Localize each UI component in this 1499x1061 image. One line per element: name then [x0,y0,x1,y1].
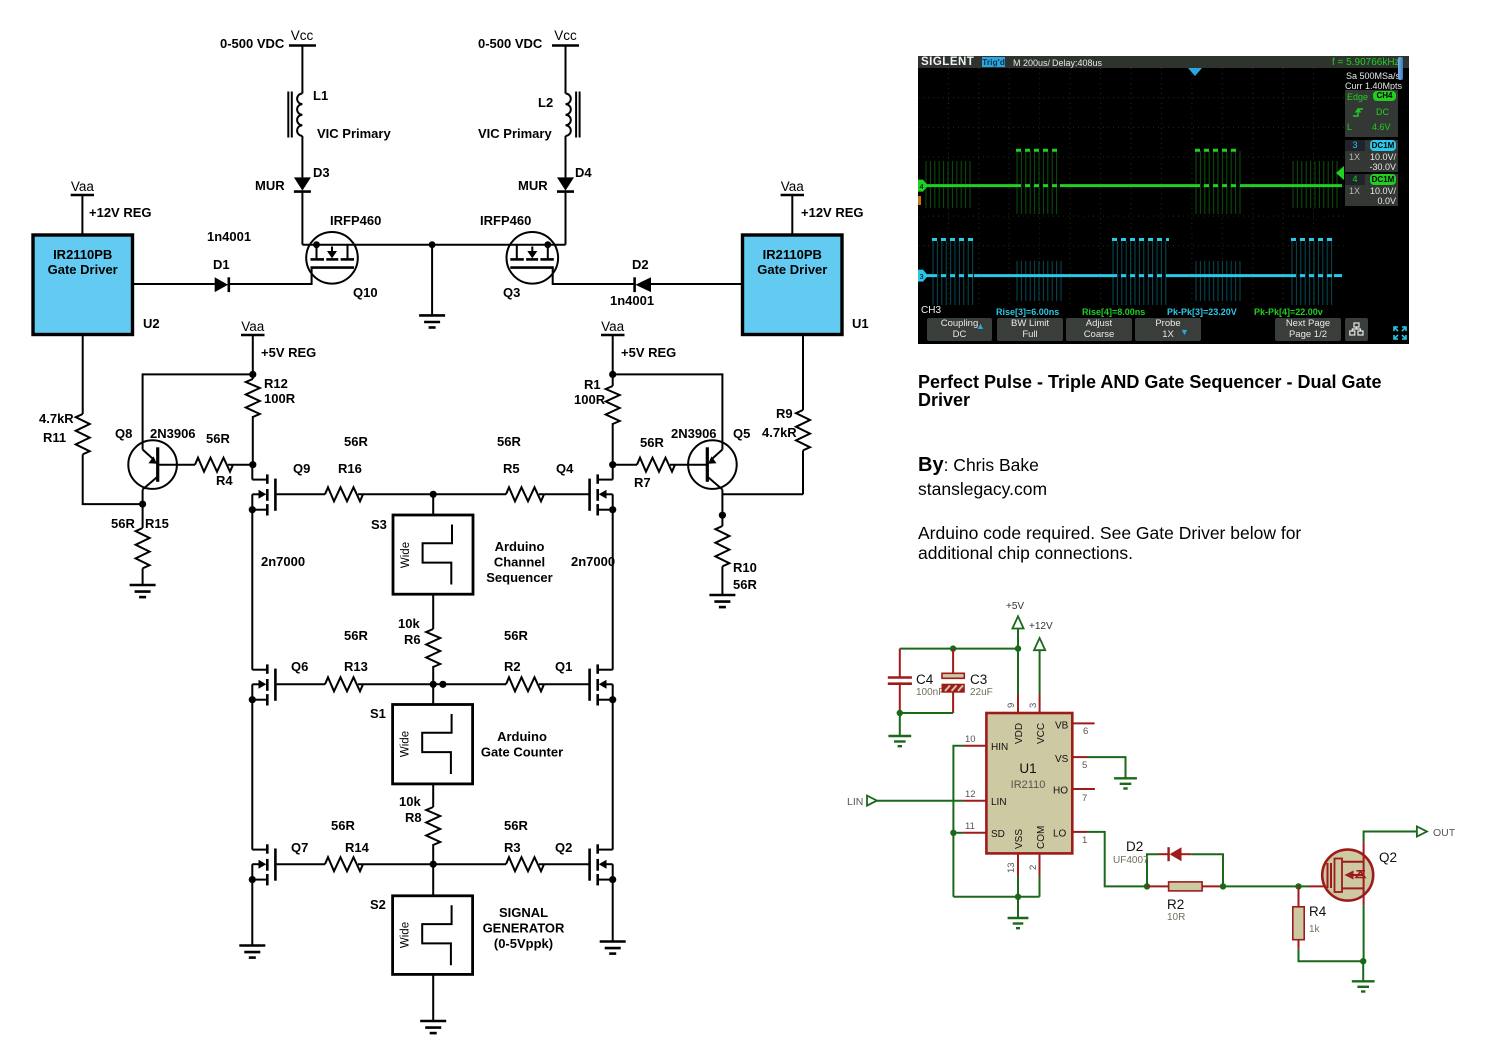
wire node to R15 [142,504,144,528]
node row2 center (double junction) [430,681,437,688]
svg-text:L2: L2 [538,95,553,110]
ground (below S2) [420,1021,446,1033]
transistor Q9 2n7000 [249,461,311,516]
wire center node to ground [431,245,433,316]
ground (below C4) [888,713,911,746]
wire L2 to D4 [565,136,567,178]
wire Q2 drain to OUT [1364,832,1417,862]
IC U1 IR2110PB gate driver [743,235,869,335]
svg-text:SD: SD [991,829,1005,840]
inductor L1 [288,88,391,141]
svg-text:4.7kR: 4.7kR [762,425,797,440]
svg-text:D4: D4 [575,165,592,180]
svg-text:R3: R3 [504,840,521,855]
svg-text:R2: R2 [1167,897,1184,912]
wire Q9 source to Q6 drain [251,510,253,670]
ground (below R15) [130,585,156,597]
svg-text:IR2110PB: IR2110PB [53,247,112,262]
wire Vaa down to R12 [252,335,254,379]
svg-text:Arduino: Arduino [495,539,545,554]
svg-text:11: 11 [965,821,975,832]
wire Q4 source to Q1 drain [612,510,614,670]
svg-text:(0-5Vppk): (0-5Vppk) [494,936,553,951]
svg-text:Q2: Q2 [555,840,572,855]
ground (center between Q10 and Q3) [419,315,445,327]
green trace CH4 [920,150,1342,185]
wire R8 to row3 node [432,844,434,864]
wire R6 to row2 node [432,666,434,684]
svg-text:1: 1 [1082,835,1087,846]
svg-text:IRFP460: IRFP460 [330,213,381,228]
wire Vaa to U1 [791,195,793,235]
svg-text:Q10: Q10 [353,285,378,300]
svg-text:U2: U2 [143,316,160,331]
svg-text:R8: R8 [405,810,422,825]
svg-text:Q1: Q1 [555,659,572,674]
svg-text:Q7: Q7 [291,840,308,855]
transistor Q2 (power MOSFET) [1322,850,1397,901]
pin numbers [965,703,1088,873]
scope graticule and traces [918,68,1344,305]
wire +5V rail to C4 [900,648,1018,650]
svg-text:LIN: LIN [991,797,1007,808]
wire Q1 source to Q2 drain [612,700,614,850]
svg-text:Wide: Wide [400,922,412,948]
svg-text:56R: 56R [206,431,230,446]
input port LIN [847,796,963,808]
svg-text:56R: 56R [331,818,355,833]
inductor L2 [478,92,580,142]
diode D2 UF4007 [1113,839,1223,886]
wire bottom tie to VSS/COM [953,896,1039,898]
svg-text:LO: LO [1053,829,1067,840]
svg-text:R14: R14 [345,840,370,855]
signal source S3 (Arduino Channel Sequencer) [371,515,473,594]
svg-text:Q3: Q3 [503,285,520,300]
transistor Q7 2n7000 [249,840,309,885]
wire SD tie [953,832,963,834]
svg-text:R6: R6 [404,632,421,647]
svg-text:R13: R13 [344,659,368,674]
svg-text:S2: S2 [370,897,386,912]
wire U2 to R11 [82,335,84,415]
capacitor C3 22uF [942,649,993,713]
trigger level arrow [1336,166,1344,180]
svg-text:0-500 VDC: 0-500 VDC [478,36,543,51]
wire S2 to ground [432,974,434,1021]
svg-text:U1: U1 [1019,761,1036,776]
IC U1 IR2110 [986,713,1072,853]
wire Q2 source to ground [1360,888,1366,964]
svg-text:VIC Primary: VIC Primary [317,126,391,141]
svg-text:Vaa: Vaa [241,319,265,334]
svg-text:3: 3 [1028,703,1039,708]
scope header bar [918,56,1409,68]
wire VS to ground [1087,757,1126,778]
svg-text:+5V REG: +5V REG [621,345,676,360]
cyan trace CH3 [920,240,1342,276]
svg-text:Gate Driver: Gate Driver [48,262,118,277]
wire D2 to U1 [651,283,742,285]
signal source S2 (signal generator) [370,896,473,975]
svg-text:C3: C3 [970,672,987,687]
svg-text:100R: 100R [264,391,296,406]
svg-text:56R: 56R [344,628,368,643]
node Vaa (+5V REG left) [241,319,316,360]
svg-text:Q4: Q4 [556,461,574,476]
svg-text:10k: 10k [399,794,421,809]
wire R1 to row1 node [612,423,614,465]
svg-text:R16: R16 [338,461,362,476]
text block [918,373,1413,409]
wire +5V node to Q5 emitter [613,374,723,449]
svg-text:IRFP460: IRFP460 [480,213,531,228]
svg-text:R7: R7 [634,475,651,490]
svg-text:Vaa: Vaa [71,179,95,194]
svg-text:OUT: OUT [1433,827,1456,839]
resistor R6 10k [398,616,440,667]
svg-text:56R: 56R [733,577,757,592]
wire row2 node to S1 [432,684,434,704]
wire Vaa to U2 [81,195,83,235]
wire R16 to center node [358,493,433,495]
svg-text:D1: D1 [213,257,230,272]
wire Q2 source to ground [612,880,614,942]
ground (below Q2) [1352,961,1375,991]
svg-text:9: 9 [1006,703,1017,708]
svg-text:L1: L1 [313,88,328,103]
svg-text:56R: 56R [497,434,521,449]
svg-text:Gate Driver: Gate Driver [757,262,827,277]
resistor R12 100R [246,376,296,417]
svg-text:Q2: Q2 [1379,850,1397,865]
wire L1 to D3 [301,136,303,178]
svg-text:13: 13 [1006,862,1017,873]
svg-text:Sequencer: Sequencer [486,570,552,585]
svg-text:R11: R11 [43,430,66,445]
wire row1 node to S3 [432,494,434,515]
resistor R4 56R [195,431,233,488]
resistor R5 56R [497,434,544,501]
ground (below U1) [1008,897,1029,928]
svg-text:+12V REG: +12V REG [801,205,864,220]
wire +5V node to Q8 emitter [143,374,253,449]
svg-text:Gate Counter: Gate Counter [481,745,563,760]
svg-text:2: 2 [1028,865,1039,870]
svg-text:Wide: Wide [400,542,412,568]
wire Q6 source to Q7 drain [251,700,253,850]
scope bottom readouts [921,305,941,316]
node row3 center [430,861,437,868]
pin 3 VCC stub [1039,694,1041,714]
svg-text:D3: D3 [313,165,330,180]
svg-text:VIC Primary: VIC Primary [478,126,552,141]
wire R11 to Q8 collector node [83,454,143,504]
svg-text:Vcc: Vcc [554,28,577,43]
wire HIN feed [953,746,963,897]
svg-text:2n7000: 2n7000 [261,554,305,569]
wire node to R5 [433,493,506,495]
svg-text:MUR: MUR [518,178,548,193]
svg-text:56R: 56R [344,434,368,449]
svg-text:COM: COM [1036,826,1047,849]
svg-text:6: 6 [1083,726,1088,737]
svg-text:1n4001: 1n4001 [207,229,251,244]
svg-text:3: 3 [920,272,924,281]
svg-text:R10: R10 [733,560,757,575]
signal source S1 (Arduino Gate Counter) [370,705,473,784]
wire Q5 collector to R9 [722,493,803,495]
transistor Q6 2n7000 [249,659,309,706]
svg-text:56R: 56R [504,818,528,833]
svg-text:IR2110PB: IR2110PB [763,247,822,262]
svg-text:GENERATOR: GENERATOR [483,921,565,936]
svg-text:R4: R4 [216,473,233,488]
svg-text:56R: 56R [111,516,135,531]
transistor Q4 2n7000 [556,461,616,516]
svg-text:S3: S3 [371,517,387,532]
svg-text:10k: 10k [398,616,420,631]
svg-text:Vaa: Vaa [781,179,805,194]
node Vaa (U2 supply) [71,179,152,220]
svg-text:HIN: HIN [991,742,1008,753]
wire top bus Q10-Q3 [302,244,565,246]
svg-text:R12: R12 [264,376,288,391]
svg-text:MUR: MUR [255,178,285,193]
resistor R2 10R [1147,882,1226,923]
wire R14 to row3 node [358,863,506,865]
wire R4 to node [228,464,253,466]
svg-text:0-500 VDC: 0-500 VDC [220,36,285,51]
wire node to R10 [721,515,723,526]
svg-text:Q6: Q6 [291,659,308,674]
svg-text:R9: R9 [776,406,793,421]
wire R2 to Q1 gate [539,683,589,685]
svg-text:Vcc: Vcc [291,28,314,43]
output port OUT [1417,827,1456,840]
svg-text:HO: HO [1053,786,1068,797]
wire U1 to R9 [802,335,804,411]
wire C4/C3 bottom junction [900,712,953,714]
svg-text:SIGNAL: SIGNAL [499,905,548,920]
svg-text:12: 12 [965,789,976,800]
node Vcc (right 0-500 VDC supply) [478,28,579,51]
resistor R1 100R [574,377,620,424]
svg-text:22uF: 22uF [970,687,993,698]
capacitor C4 100nF [888,649,945,713]
svg-text:IR2110: IR2110 [1011,779,1046,791]
svg-text:7: 7 [1082,793,1087,804]
node Vaa (+5V REG right) [601,319,676,360]
pin 9 VDD stub [1017,649,1019,694]
svg-text:1k: 1k [1309,924,1321,935]
svg-text:VSS: VSS [1014,829,1025,849]
svg-text:R5: R5 [503,461,520,476]
svg-text:100nF: 100nF [916,687,944,698]
wire row3 node to S2 [432,864,434,896]
svg-text:10: 10 [965,734,976,745]
trigger position marker [1188,68,1202,76]
svg-text:5: 5 [1082,760,1087,771]
node center drain junction [429,241,436,248]
svg-text:VCC: VCC [1036,723,1047,744]
node C3 top [950,645,956,651]
svg-text:Q8: Q8 [115,426,132,441]
svg-text:4: 4 [920,182,924,191]
wire Vcc to L2 [565,46,567,94]
svg-text:1n4001: 1n4001 [610,293,654,308]
diode D1 (1n4001) [207,229,251,292]
node R12/R4/Q9 junction [249,461,256,468]
oscilloscope screenshot [918,56,1409,344]
resistor R2 56R [504,628,544,691]
wire R3 to Q2 gate [539,863,589,865]
svg-text:D2: D2 [1126,839,1143,854]
svg-text:VDD: VDD [1014,723,1025,744]
svg-text:2N3906: 2N3906 [150,426,196,441]
wire R12 to row1 node [252,416,254,465]
wire R13 to row2 node [358,683,506,685]
wire R7 to Q5 base [670,464,707,466]
ground (below Q2) [600,942,626,954]
transistor Q5 2N3906 [671,426,750,515]
wire U2 to D1 [133,283,215,285]
svg-text:VS: VS [1055,754,1069,765]
power +5V [1006,601,1024,649]
wire S3 to R6 [432,594,434,629]
wire Q8 base to R4 [158,464,195,466]
resistor R13 56R [325,628,368,691]
svg-text:R15: R15 [145,516,169,531]
svg-text:Vaa: Vaa [601,319,625,334]
channel markers [918,180,928,192]
wire R15 to ground [142,568,144,585]
node row1 center [430,491,437,498]
resistor R15 56R [111,516,169,568]
svg-text:56R: 56R [504,628,528,643]
IC U2 IR2110PB gate driver [33,235,160,335]
node +5V right branch [609,371,616,378]
power +12V [1029,621,1053,694]
wire R5 to Q4 gate [539,493,589,495]
wire Q6 gate to R13 [277,683,325,685]
svg-text:4.7kR: 4.7kR [39,411,74,426]
svg-text:Arduino: Arduino [497,729,547,744]
svg-text:C4: C4 [916,672,934,687]
label Arduino Gate Counter [481,729,563,760]
resistor R10 56R [715,526,757,592]
svg-text:R1: R1 [584,377,601,392]
ground (below Q7) [239,946,265,958]
wire Vaa down to R1 [612,335,614,386]
svg-text:UF4007: UF4007 [1113,855,1149,866]
svg-text:R2: R2 [504,659,521,674]
wire R2 to gate node [1223,885,1309,887]
ground (below R10) [709,595,735,607]
resistor R16 56R [325,434,368,501]
resistor R8 10k [399,794,440,845]
svg-text:Channel: Channel [494,555,545,570]
node Q8 collector / R15 [139,501,146,508]
wire R10 to ground [721,566,723,595]
wire Q7 gate to R14 [277,863,325,865]
svg-text:R4: R4 [1309,904,1327,919]
transistor Q8 2N3906 [115,426,196,504]
node Vcc (left 0-500 VDC supply) [220,28,316,51]
label SIGNAL GENERATOR [483,905,565,951]
wire Vcc to L1 [301,46,303,94]
scope sidebar [1345,70,1398,305]
wire LO output [1087,832,1147,887]
diode D4 (MUR) [518,165,592,193]
transistor Q2 2n7000 [555,840,616,885]
wire R9 to Q5 collector line [802,450,804,494]
resistor R14 56R [325,818,370,871]
svg-text:+5V: +5V [1006,601,1024,612]
svg-text:Q9: Q9 [293,461,310,476]
node Vaa (U1 supply) [781,179,864,220]
wire node to R7 [613,464,637,466]
diode D3 (MUR) [255,165,330,193]
svg-text:+12V: +12V [1029,621,1053,632]
svg-text:10R: 10R [1167,912,1185,923]
wire S1 to R8 [432,784,434,807]
svg-text:2n7000: 2n7000 [571,554,615,569]
label Arduino Channel Sequencer [486,539,552,585]
transistor Q3 IRFP460 [480,213,634,300]
transistor Q1 2n7000 [555,659,616,706]
svg-text:LIN: LIN [847,796,863,808]
svg-text:Q5: Q5 [733,426,750,441]
svg-text:+5V REG: +5V REG [261,345,316,360]
transistor Q10 IRFP460 [229,213,381,300]
svg-text:VB: VB [1055,721,1069,732]
wire D4 to Q3 drain [565,192,567,245]
diode D2 (1n4001) [610,257,654,308]
node R1/R7/Q4 junction [609,461,616,468]
svg-text:Wide: Wide [400,731,412,757]
gate lead Q2 [1309,885,1330,887]
resistor R3 56R [504,818,544,871]
resistor R4 1k [1293,886,1363,961]
svg-text:U1: U1 [852,316,869,331]
wire Q9 gate to R16 [277,493,325,495]
svg-text:56R: 56R [640,435,664,450]
svg-text:2N3906: 2N3906 [671,426,717,441]
svg-text:D2: D2 [632,257,649,272]
node R10 top [719,512,726,519]
pin stubs U1 [963,723,1095,876]
node +5V left branch [249,371,256,378]
ground (VS) [1114,778,1137,788]
scope scrollbar [1398,57,1403,80]
resistor R9 4.7kR [762,406,810,450]
resistor R11 4.7kR [39,411,90,454]
wire Q7 source to ground [251,880,253,946]
resistor R7 56R [634,435,675,490]
svg-text:100R: 100R [574,392,606,407]
node VDD branch [1015,645,1021,651]
svg-text:+12V REG: +12V REG [89,205,152,220]
svg-text:S1: S1 [370,706,386,721]
scope menu buttons [927,318,992,341]
wire D3 to Q10 drain [301,192,303,245]
